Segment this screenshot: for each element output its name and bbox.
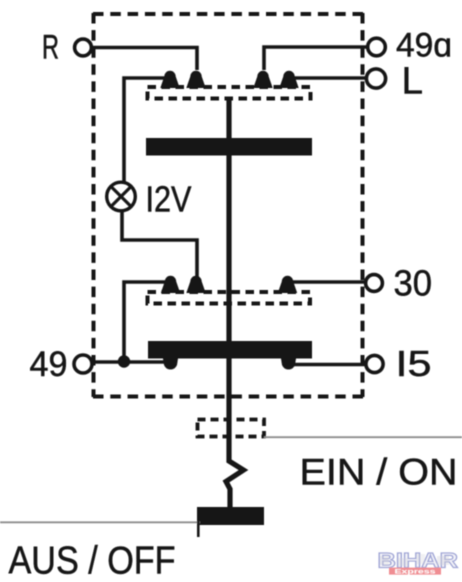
svg-text:I5: I5 [396, 343, 432, 384]
svg-text:I2V: I2V [146, 179, 192, 220]
contact a4 [280, 71, 298, 87]
svg-text:L: L [402, 61, 424, 103]
contact a2 [187, 71, 205, 87]
svg-text:EIN / ON: EIN / ON [300, 452, 458, 493]
junction dot 49/lamp node [118, 355, 130, 367]
contact b3 [279, 276, 297, 292]
wire L to contact [288, 76, 367, 80]
svg-text:AUS / OFF: AUS / OFF [9, 540, 176, 582]
wire lamp bottom to contact 2b [122, 210, 197, 278]
indicator lamp circle [107, 182, 136, 211]
watermark red band [389, 568, 441, 575]
svg-text:Express: Express [395, 569, 436, 576]
wire terminal 49 to bar2 left foot [92, 360, 167, 364]
terminal 49 circle [74, 355, 92, 373]
EIN / ON position line [264, 436, 462, 438]
movable contact carrier 2 (inner dashed box) [148, 292, 311, 304]
lamp cross stroke 2 [111, 187, 131, 207]
watermark letter texture blobs [380, 556, 389, 565]
terminal R circle [75, 39, 92, 56]
terminal L circle [366, 69, 385, 88]
button edge tick [197, 519, 200, 537]
terminal 30 circle [366, 275, 383, 292]
bar 2 right contact foot [281, 359, 296, 370]
actuator shaft with detent spring zigzag [226, 98, 244, 507]
watermark logo BIHAR [378, 550, 459, 576]
svg-text:R: R [42, 29, 59, 67]
wire contact1 to lamp top [124, 78, 169, 184]
svg-text:49ɑ: 49ɑ [396, 27, 452, 65]
svg-text:30: 30 [394, 263, 433, 304]
switch body outline (outer dashed box) [93, 13, 363, 397]
wire bar2 right foot to terminal 15 [294, 363, 366, 367]
contact bridge bar 2 [148, 341, 312, 359]
contact bridge bar 1 [146, 138, 312, 156]
AUS / OFF position line [0, 521, 200, 523]
terminal 15 circle [366, 355, 383, 372]
wire R to contact [91, 48, 197, 71]
bar 2 left contact foot [163, 359, 178, 370]
contact a3 [254, 71, 272, 87]
lamp cross stroke 1 [111, 187, 131, 207]
actuator guide (small dashed box) [198, 420, 265, 437]
contact row 1: contact a1 [161, 71, 179, 87]
wire 49a to contact [264, 47, 369, 70]
contact b2 [187, 276, 205, 292]
push button bar [197, 507, 264, 525]
contact row 2: contact b1 [162, 276, 180, 292]
movable contact carrier 1 (inner dashed box) [148, 87, 311, 99]
svg-text:49: 49 [30, 344, 68, 384]
wire contact 1b down to 49 node [124, 282, 166, 361]
wire contact 3b to terminal 30 [293, 280, 366, 284]
terminal 49a circle [368, 38, 386, 56]
